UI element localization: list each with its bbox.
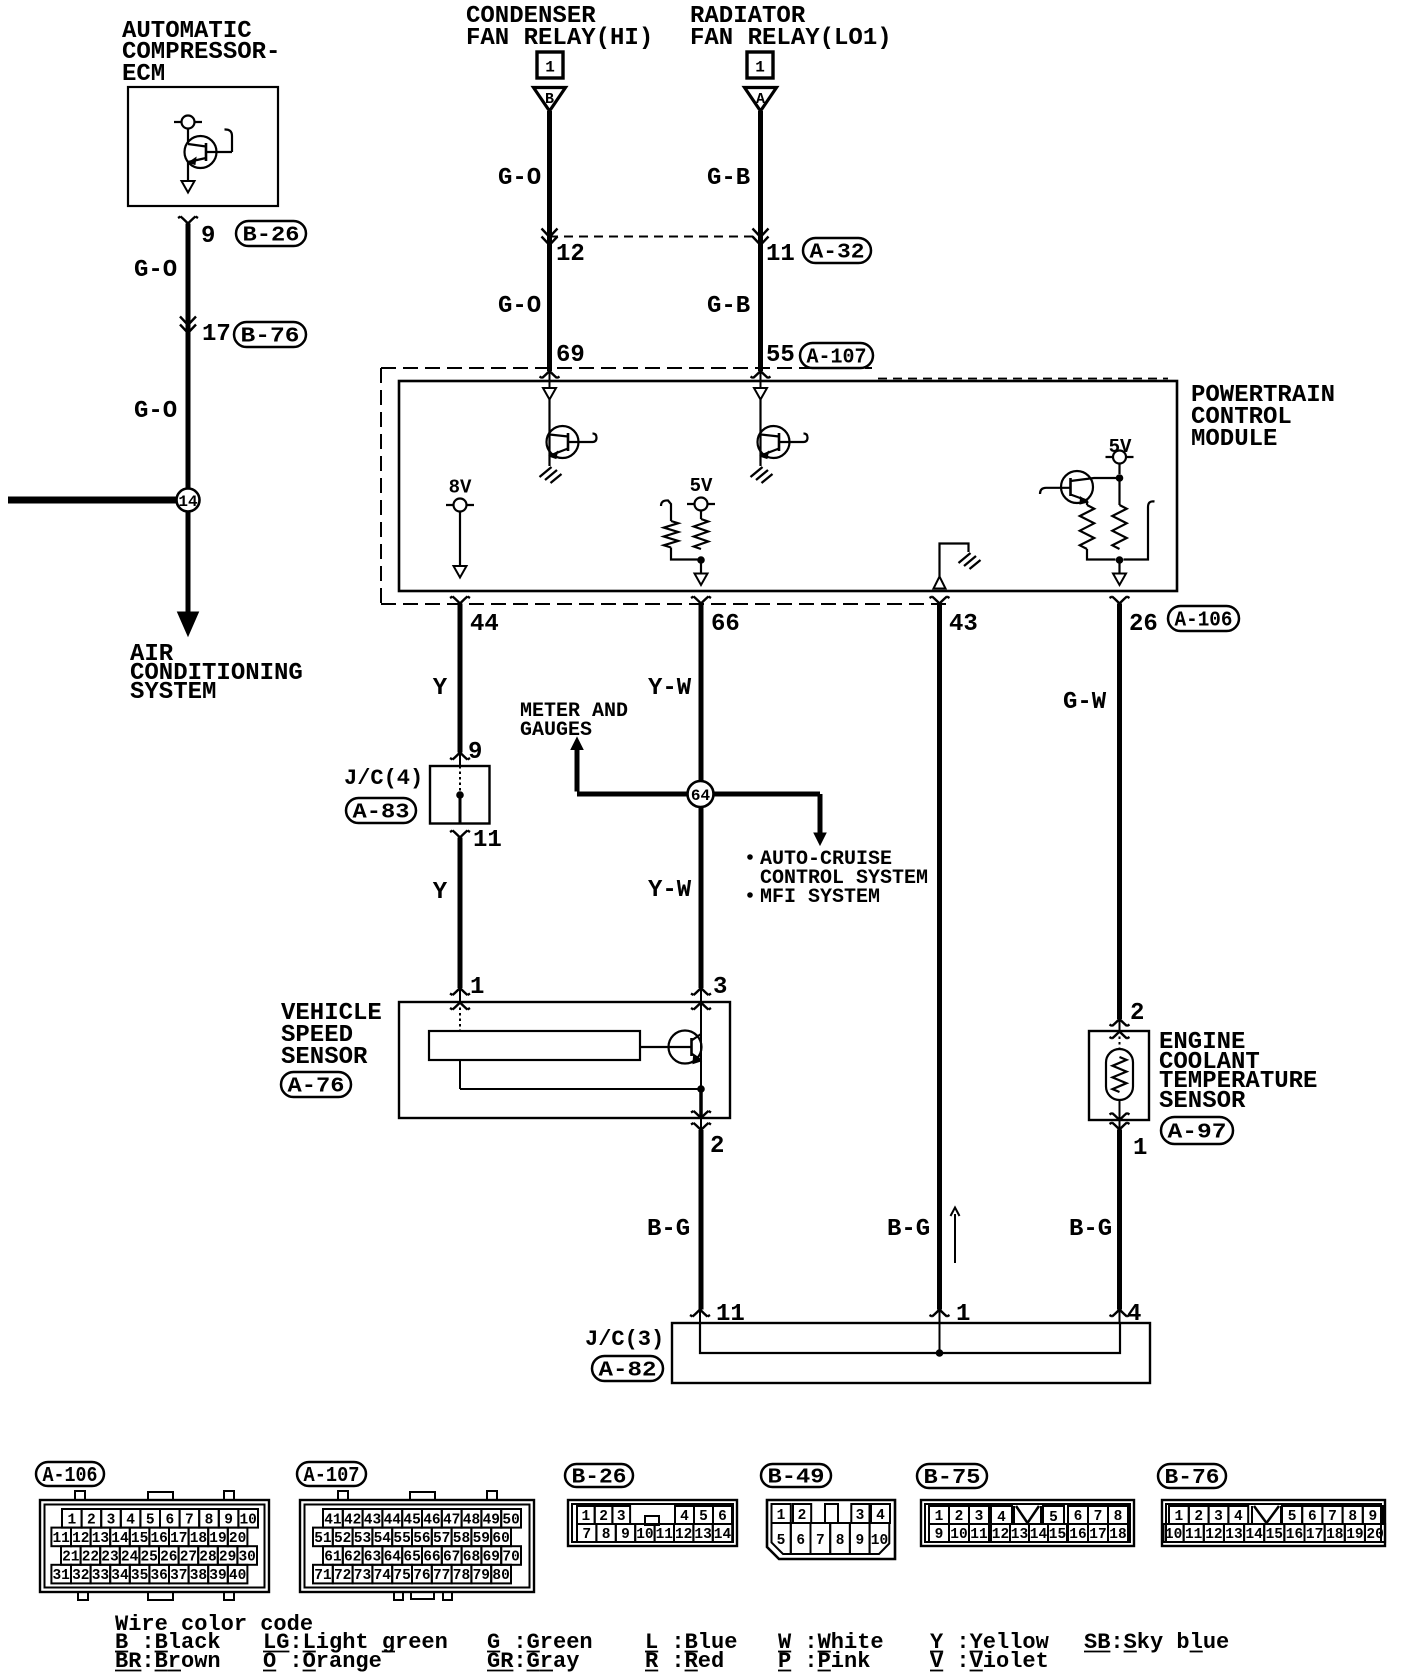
- arrow to air conditioning system: [178, 612, 199, 636]
- svg-text:76: 76: [413, 1568, 430, 1584]
- svg-text:51: 51: [314, 1531, 332, 1547]
- junction dot Q3 collector: [1116, 474, 1124, 482]
- svg-text:69: 69: [483, 1550, 500, 1566]
- svg-text:60: 60: [492, 1531, 509, 1547]
- output arrow pin 26: [1118, 560, 1120, 574]
- svg-text:44: 44: [470, 611, 499, 638]
- svg-text:1: 1: [582, 1509, 591, 1525]
- B-26 pins row 2: [577, 1524, 596, 1542]
- svg-text:22: 22: [82, 1550, 99, 1566]
- junction 14: [177, 489, 200, 512]
- svg-text:1: 1: [470, 974, 484, 1001]
- B-75 pins row 1b: [1068, 1506, 1088, 1524]
- svg-text:A-107: A-107: [304, 1465, 360, 1488]
- svg-text:1: 1: [545, 59, 555, 77]
- svg-text:2: 2: [955, 1509, 964, 1525]
- svg-text:6: 6: [1308, 1509, 1317, 1525]
- connector B-49 housing: [767, 1500, 895, 1559]
- 5V supply: [687, 503, 715, 505]
- svg-text:16: 16: [1286, 1527, 1303, 1543]
- ECM power terminal: [174, 121, 202, 123]
- svg-text:A: A: [756, 91, 765, 108]
- svg-text:G-B: G-B: [707, 165, 750, 192]
- svg-text:Y: Y: [433, 675, 448, 702]
- relay terminal triangle A: [745, 88, 777, 112]
- output arrow pin 66: [700, 560, 702, 574]
- arrow to meter and gauges: [571, 738, 583, 750]
- svg-text:7: 7: [582, 1527, 591, 1543]
- svg-text:35: 35: [131, 1568, 148, 1584]
- svg-text:Y: Y: [433, 879, 448, 906]
- relay terminal triangle B: [534, 88, 566, 112]
- VSS emitter lead: [700, 1060, 702, 1086]
- ECM transistor Q: [185, 136, 217, 168]
- pin 43 internal lead: [940, 544, 969, 577]
- feeder wire to junction 14: [8, 497, 177, 504]
- svg-text:50: 50: [502, 1512, 519, 1528]
- connector label A-107 pinout: [297, 1462, 366, 1486]
- ECT internal lead top: [1119, 1031, 1121, 1049]
- svg-text:8: 8: [602, 1527, 611, 1543]
- ENGINE COOLANT TEMPERATURE SENSOR box: [1089, 1031, 1149, 1120]
- connector label B-26: [236, 221, 306, 246]
- svg-text:6: 6: [1074, 1509, 1083, 1525]
- 5V supply right: [1106, 456, 1134, 458]
- svg-text:5: 5: [146, 1512, 155, 1528]
- inline connector 12: [542, 229, 558, 246]
- wire G-W from pin 26: [1117, 604, 1122, 1020]
- legend underlines row 1: [115, 1651, 128, 1653]
- pin 43 input arrow: [934, 577, 946, 589]
- svg-text:5: 5: [1288, 1509, 1297, 1525]
- svg-text:10: 10: [636, 1527, 653, 1543]
- svg-text:55: 55: [393, 1531, 410, 1547]
- svg-text:7: 7: [816, 1533, 825, 1549]
- junction dot J/C(3): [936, 1349, 944, 1357]
- svg-text:36: 36: [150, 1568, 167, 1584]
- svg-text:G-O: G-O: [498, 293, 541, 320]
- VSS transistor Q4: [669, 1031, 702, 1064]
- connector symbol pin 44: [450, 597, 470, 604]
- svg-text:2: 2: [798, 1508, 807, 1524]
- svg-text:65: 65: [403, 1550, 420, 1566]
- svg-text:64: 64: [384, 1550, 402, 1566]
- resistor R3: [1086, 501, 1088, 506]
- svg-text:A-83: A-83: [353, 802, 410, 825]
- svg-text:Y-W: Y-W: [648, 877, 692, 904]
- svg-text:10: 10: [239, 1512, 256, 1528]
- connector label B-49 pinout: [761, 1464, 831, 1487]
- junction dot VSS: [697, 1085, 705, 1093]
- wire Y from pin 44: [458, 604, 463, 753]
- connector symbol ECT pin 1 box: [1110, 1113, 1130, 1120]
- connector label B-76: [234, 322, 306, 347]
- bullet auto-cruise: [747, 854, 753, 860]
- svg-text:O :Orange: O :Orange: [263, 1649, 382, 1674]
- svg-text:14: 14: [178, 493, 198, 511]
- svg-text:2: 2: [710, 1133, 724, 1160]
- wire B-G from ECT: [1117, 1130, 1122, 1310]
- B-75 pins row 2b: [991, 1524, 1010, 1542]
- PCM dashed boundary top right segment: [878, 378, 1168, 380]
- J/C(3) internal bus: [700, 1323, 1120, 1353]
- svg-text:13: 13: [1011, 1527, 1028, 1543]
- svg-text:19: 19: [209, 1531, 226, 1547]
- svg-text:74: 74: [374, 1568, 392, 1584]
- connector symbol VSS box pin1: [450, 1003, 470, 1010]
- svg-text:47: 47: [443, 1512, 460, 1528]
- svg-text:25: 25: [140, 1550, 157, 1566]
- svg-text:B: B: [545, 91, 554, 108]
- flow arrow B-G: [954, 1214, 956, 1263]
- ground pin 43: [959, 553, 981, 569]
- svg-text:14: 14: [111, 1531, 129, 1547]
- svg-text:1: 1: [1175, 1509, 1184, 1525]
- svg-text:3: 3: [975, 1509, 984, 1525]
- svg-text:43: 43: [949, 611, 978, 638]
- svg-text:57: 57: [433, 1531, 450, 1547]
- wire G-B radiator relay: [758, 111, 763, 371]
- svg-text:34: 34: [111, 1568, 129, 1584]
- svg-text:3: 3: [713, 974, 727, 1001]
- svg-text:11: 11: [970, 1527, 988, 1543]
- VSS pin1 lower lead: [459, 1060, 461, 1089]
- svg-text:ECM: ECM: [122, 61, 165, 88]
- svg-text:G-W: G-W: [1063, 689, 1107, 716]
- svg-text:V :Violet: V :Violet: [930, 1649, 1049, 1674]
- svg-text:B-G: B-G: [887, 1216, 930, 1243]
- connector symbol pin 66: [691, 597, 711, 604]
- svg-text:77: 77: [433, 1568, 450, 1584]
- svg-text:J/C(4): J/C(4): [344, 766, 423, 791]
- svg-text:B-26: B-26: [243, 225, 300, 248]
- svg-text:G-O: G-O: [134, 257, 177, 284]
- svg-text:3: 3: [1214, 1509, 1223, 1525]
- svg-text:MODULE: MODULE: [1191, 426, 1277, 453]
- svg-text:G-O: G-O: [134, 398, 177, 425]
- svg-text:45: 45: [403, 1512, 420, 1528]
- svg-text:33: 33: [92, 1568, 109, 1584]
- VSS sensor element: [429, 1031, 640, 1060]
- wire meter branch: [577, 792, 689, 797]
- PCM transistor Q3: [1061, 471, 1093, 503]
- wire to air conditioning system: [186, 512, 191, 614]
- svg-text:39: 39: [209, 1568, 226, 1584]
- svg-text:52: 52: [334, 1531, 351, 1547]
- svg-text:12: 12: [72, 1531, 89, 1547]
- junction dot Q3 divider: [1116, 556, 1124, 564]
- svg-text:7: 7: [1094, 1509, 1103, 1525]
- svg-text:5: 5: [777, 1533, 786, 1549]
- dashed link between connectors 12 and 11: [549, 236, 760, 238]
- bullet MFI: [747, 892, 753, 898]
- svg-text:A-82: A-82: [599, 1360, 657, 1383]
- svg-text:12: 12: [1205, 1527, 1222, 1543]
- svg-text:4: 4: [876, 1508, 885, 1524]
- input arrow pin 69: [543, 388, 556, 400]
- svg-text:8: 8: [205, 1512, 214, 1528]
- svg-text:58: 58: [453, 1531, 470, 1547]
- junction dot pin66 divider: [697, 556, 705, 564]
- connector symbol ECT pin 2: [1110, 1019, 1130, 1026]
- A-106 tabs: [75, 1491, 85, 1500]
- svg-text:MFI SYSTEM: MFI SYSTEM: [760, 886, 880, 909]
- connector symbol VSS pin 2 box: [691, 1111, 711, 1118]
- PCM connector A-107 dashed boundary left side: [380, 368, 382, 604]
- wire G-O from ECM to junction 14: [186, 224, 191, 490]
- A-107 pins row 4: [313, 1565, 333, 1584]
- VSS pin1 internal lead: [459, 1002, 461, 1089]
- connector symbol VSS pin 2: [691, 1123, 711, 1130]
- inline connector 17 B-76: [180, 317, 196, 334]
- connector B-26 housing: [568, 1500, 737, 1546]
- connector symbol J/C(3) pin 4: [1110, 1310, 1130, 1317]
- ECT thermistor RT: [1106, 1049, 1133, 1100]
- svg-text:4: 4: [126, 1512, 135, 1528]
- svg-text:21: 21: [62, 1550, 80, 1566]
- svg-text:A-106: A-106: [43, 1465, 98, 1488]
- svg-text:11: 11: [766, 241, 795, 268]
- A-107 pins row 1: [323, 1509, 343, 1528]
- svg-text:59: 59: [473, 1531, 490, 1547]
- wire Y-W from pin 66: [699, 604, 704, 989]
- relay page box 1 radiator: [747, 52, 773, 78]
- svg-text:72: 72: [334, 1568, 351, 1584]
- VEHICLE SPEED SENSOR box: [399, 1002, 730, 1118]
- B-76 pins row 1b: [1282, 1506, 1302, 1524]
- output arrow pin 44: [454, 566, 467, 578]
- svg-text:18: 18: [1109, 1527, 1126, 1543]
- svg-text:75: 75: [393, 1568, 410, 1584]
- svg-text:48: 48: [463, 1512, 480, 1528]
- ECM output arrow: [187, 162, 189, 181]
- svg-text:17: 17: [202, 321, 231, 348]
- svg-text:B-G: B-G: [1069, 1216, 1112, 1243]
- junction box J/C(3): [672, 1323, 1150, 1383]
- svg-text:12: 12: [556, 241, 585, 268]
- connector symbol VSS pin 1: [450, 988, 470, 995]
- svg-text:1: 1: [1133, 1135, 1147, 1162]
- svg-text:16: 16: [1069, 1527, 1086, 1543]
- arrow to auto-cruise: [814, 833, 826, 845]
- svg-text:B-49: B-49: [768, 1467, 825, 1490]
- connector symbol J/C(3) pin 1: [930, 1310, 950, 1317]
- svg-text:9: 9: [201, 223, 215, 250]
- B-75 pins row 2a: [929, 1524, 949, 1542]
- connector label B-75 pinout: [917, 1464, 987, 1488]
- connector label A-97: [1161, 1117, 1233, 1144]
- svg-text:14: 14: [1245, 1527, 1263, 1543]
- svg-text:1: 1: [777, 1508, 786, 1524]
- junction box J/C(4): [430, 766, 490, 824]
- svg-text:2: 2: [599, 1509, 608, 1525]
- ground Q1: [540, 467, 562, 483]
- svg-text:69: 69: [556, 342, 585, 369]
- B-76 pins row 1a: [1169, 1506, 1189, 1524]
- svg-text:J/C(3): J/C(3): [585, 1327, 664, 1352]
- svg-text:43: 43: [364, 1512, 381, 1528]
- svg-text:54: 54: [374, 1531, 392, 1547]
- connector symbol J/C(3) pin 11: [690, 1310, 710, 1317]
- svg-text:A-106: A-106: [1175, 610, 1233, 633]
- svg-text:A-76: A-76: [288, 1076, 345, 1099]
- svg-text:SENSOR: SENSOR: [281, 1044, 368, 1071]
- svg-text:53: 53: [354, 1531, 371, 1547]
- svg-text:13: 13: [1225, 1527, 1242, 1543]
- svg-text:41: 41: [324, 1512, 342, 1528]
- VSS pin2 link: [700, 1118, 702, 1130]
- PCM dashed boundary top: [381, 367, 872, 369]
- svg-text:Y-W: Y-W: [648, 675, 692, 702]
- svg-text:27: 27: [180, 1550, 197, 1566]
- svg-text:9: 9: [855, 1533, 864, 1549]
- svg-text:49: 49: [483, 1512, 500, 1528]
- connector label A-83: [346, 798, 416, 823]
- svg-text:4: 4: [680, 1509, 689, 1525]
- svg-text:7: 7: [1328, 1509, 1337, 1525]
- B-75 pin 4: [991, 1506, 1012, 1524]
- svg-text:38: 38: [190, 1568, 207, 1584]
- connector label A-107: [800, 343, 873, 368]
- svg-text:A-107: A-107: [807, 347, 867, 370]
- A-106 pins row 1: [62, 1509, 82, 1528]
- svg-text:A-32: A-32: [810, 242, 865, 265]
- wire B-G from pin 43: [937, 604, 942, 1310]
- svg-text:11: 11: [656, 1527, 674, 1543]
- svg-text:29: 29: [219, 1550, 236, 1566]
- svg-text:80: 80: [492, 1568, 509, 1584]
- wire Y to VSS: [458, 838, 463, 989]
- connector label A-82: [592, 1356, 663, 1381]
- resistor R1: [700, 511, 702, 520]
- svg-text:9: 9: [1369, 1509, 1378, 1525]
- svg-text:9: 9: [621, 1527, 630, 1543]
- inline connector 11: [753, 229, 769, 246]
- PCM transistor Q1: [547, 426, 579, 458]
- connector symbol VSS pin 3: [691, 988, 711, 995]
- svg-text:13: 13: [92, 1531, 109, 1547]
- svg-text:66: 66: [711, 611, 740, 638]
- svg-text:1: 1: [935, 1509, 944, 1525]
- connector symbol pin 69: [540, 371, 560, 378]
- A-106 pins row 3: [61, 1546, 81, 1565]
- A-107 tabs: [338, 1491, 348, 1500]
- B-49 pins row 1: [772, 1504, 791, 1523]
- PCM transistor Q2: [758, 426, 790, 458]
- svg-text:SYSTEM: SYSTEM: [130, 679, 216, 706]
- svg-text:79: 79: [473, 1568, 490, 1584]
- svg-text:46: 46: [423, 1512, 440, 1528]
- A-107 pins row 3: [323, 1546, 343, 1565]
- svg-text:A-97: A-97: [1168, 1122, 1227, 1145]
- svg-text:26: 26: [160, 1550, 177, 1566]
- connector symbol VSS box pin3: [691, 1003, 711, 1010]
- connector label B-26 pinout: [565, 1464, 633, 1487]
- connector A-107 housing: [300, 1500, 534, 1592]
- B-75 keyway: [1013, 1506, 1015, 1524]
- svg-text:26: 26: [1129, 611, 1158, 638]
- POWERTRAIN CONTROL MODULE box: [399, 381, 1177, 591]
- ECM box: [128, 87, 278, 206]
- svg-text:2: 2: [1130, 1000, 1144, 1027]
- svg-text:64: 64: [691, 787, 711, 805]
- connector label A-106: [1168, 606, 1239, 631]
- svg-text:18: 18: [190, 1531, 207, 1547]
- svg-text:3: 3: [856, 1508, 865, 1524]
- svg-text:18: 18: [1326, 1527, 1343, 1543]
- connector symbol pin 26: [1110, 597, 1130, 604]
- svg-text:71: 71: [314, 1568, 332, 1584]
- svg-text:16: 16: [150, 1531, 167, 1547]
- svg-text:17: 17: [1306, 1527, 1323, 1543]
- connector symbol J/C(4) pin 11: [450, 831, 470, 838]
- svg-text:63: 63: [364, 1550, 381, 1566]
- svg-text:5: 5: [699, 1509, 708, 1525]
- svg-text:31: 31: [52, 1568, 70, 1584]
- B-75 pins row 1a: [929, 1506, 949, 1524]
- connector B-76 housing: [1162, 1500, 1385, 1546]
- svg-text:68: 68: [463, 1550, 480, 1566]
- svg-text:23: 23: [101, 1550, 118, 1566]
- legend underlines row 2: [115, 1670, 141, 1672]
- svg-text:12: 12: [675, 1527, 692, 1543]
- PCM Q1 emitter to ground: [548, 456, 550, 467]
- svg-text:1: 1: [755, 59, 765, 77]
- svg-text:11: 11: [473, 827, 502, 854]
- svg-text:42: 42: [344, 1512, 361, 1528]
- connector label A-106 pinout: [36, 1462, 104, 1486]
- svg-text:5V: 5V: [690, 475, 713, 497]
- connector label B-76 pinout: [1158, 1464, 1226, 1488]
- VSS lead to pin 2: [699, 1089, 703, 1118]
- svg-text:3: 3: [107, 1512, 116, 1528]
- A-107 pins row 2: [313, 1528, 333, 1547]
- svg-text:3: 3: [617, 1509, 626, 1525]
- connector symbol J/C(4) pin 9: [450, 753, 470, 760]
- svg-text:B-76: B-76: [1165, 1467, 1220, 1490]
- connector symbol ECT pin 1: [1110, 1123, 1130, 1130]
- svg-text:12: 12: [992, 1527, 1009, 1543]
- B-26 notch: [645, 1516, 659, 1525]
- svg-text:66: 66: [423, 1550, 440, 1566]
- svg-text:8: 8: [836, 1533, 845, 1549]
- svg-text:62: 62: [344, 1550, 361, 1566]
- svg-text:8: 8: [1348, 1509, 1357, 1525]
- B-49 pins row 2: [772, 1523, 791, 1554]
- svg-text:2: 2: [87, 1512, 96, 1528]
- input arrow pin 55: [754, 388, 767, 400]
- svg-text:9: 9: [224, 1512, 233, 1528]
- svg-text:14: 14: [1030, 1527, 1048, 1543]
- svg-text:40: 40: [229, 1568, 246, 1584]
- svg-text:6: 6: [165, 1512, 174, 1528]
- svg-text:17: 17: [1089, 1527, 1106, 1543]
- svg-text:GAUGES: GAUGES: [520, 719, 592, 742]
- svg-text:G-O: G-O: [498, 165, 541, 192]
- wire auto-cruise branch: [712, 792, 820, 797]
- svg-text:61: 61: [324, 1550, 342, 1566]
- svg-text:44: 44: [384, 1512, 402, 1528]
- hook lead internal: [661, 500, 671, 521]
- svg-text:10: 10: [871, 1533, 888, 1549]
- svg-text:55: 55: [766, 342, 795, 369]
- svg-text:G-B: G-B: [707, 293, 750, 320]
- svg-text:14: 14: [714, 1527, 732, 1543]
- svg-text:15: 15: [1049, 1527, 1066, 1543]
- svg-text:17: 17: [170, 1531, 187, 1547]
- svg-text:56: 56: [413, 1531, 430, 1547]
- svg-text:SENSOR: SENSOR: [1159, 1088, 1246, 1115]
